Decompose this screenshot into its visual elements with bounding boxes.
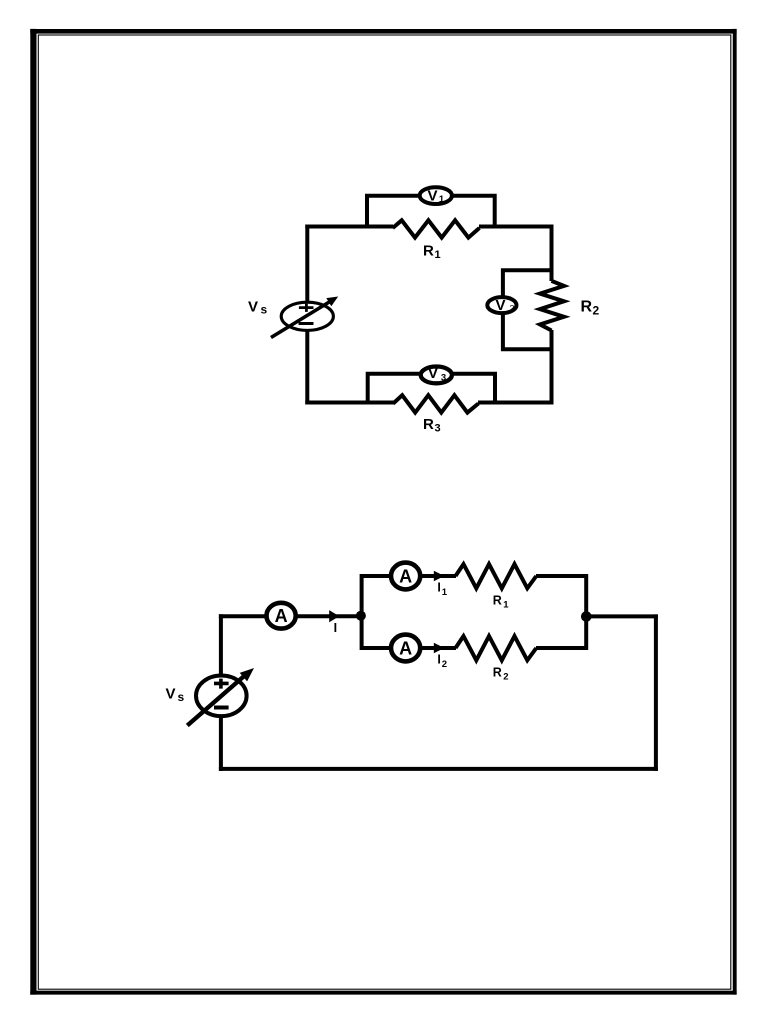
voltmeter V1 xyxy=(420,187,452,205)
wire: lower branch right segment xyxy=(536,646,586,650)
svg-text:R: R xyxy=(581,299,593,316)
resistor R3 (top circuit) xyxy=(393,395,478,412)
svg-text:A: A xyxy=(399,567,412,587)
voltmeter V3 xyxy=(421,365,452,383)
resistor R2 (top circuit) xyxy=(540,281,564,331)
voltmeter V2 xyxy=(487,297,516,314)
svg-text:s: s xyxy=(178,690,185,704)
svg-text:3: 3 xyxy=(441,372,446,383)
wire: voltmeter V1 parallel loop xyxy=(367,196,495,227)
svg-text:R: R xyxy=(493,666,502,680)
current arrow I2 xyxy=(434,643,445,654)
wire: bottom-circuit left vertical lower segment xyxy=(219,716,223,771)
resistor R2 (bottom circuit) xyxy=(456,636,537,660)
label Vs (top circuit) xyxy=(248,299,268,317)
svg-text:V: V xyxy=(248,299,258,316)
resistor R1 (top circuit) xyxy=(393,220,480,237)
current arrow I1 xyxy=(434,571,445,582)
svg-text:R: R xyxy=(493,594,502,608)
wire: right branch vertical xyxy=(584,574,588,650)
voltage source Vs (top circuit) xyxy=(271,297,338,338)
resistor R1 (bottom circuit) xyxy=(456,564,537,588)
label Vs (bottom circuit) xyxy=(166,686,185,705)
svg-text:A: A xyxy=(399,639,412,659)
wire: right side lower segment xyxy=(550,330,554,405)
wire: bottom-circuit left vertical upper segment xyxy=(219,614,223,675)
wire: far right vertical xyxy=(654,614,658,771)
wire: top-circuit left vertical lower segment xyxy=(305,330,309,405)
svg-text:1: 1 xyxy=(435,249,441,261)
junction node (left) xyxy=(356,611,366,621)
wire: bottom side left segment xyxy=(305,401,394,405)
svg-text:1: 1 xyxy=(439,194,445,205)
svg-text:1: 1 xyxy=(503,599,509,610)
svg-text:I: I xyxy=(334,621,337,635)
svg-text:s: s xyxy=(261,302,268,316)
svg-text:V: V xyxy=(427,187,437,204)
label R1 (bottom circuit) xyxy=(493,594,510,611)
label R2 (top circuit) xyxy=(581,299,600,318)
wire: right side upper segment xyxy=(550,225,554,282)
label I1 xyxy=(437,581,447,598)
svg-text:2: 2 xyxy=(510,303,515,313)
svg-text:3: 3 xyxy=(435,423,441,435)
svg-text:V: V xyxy=(428,365,438,382)
wire: upper branch right segment xyxy=(536,574,586,578)
svg-text:2: 2 xyxy=(593,304,600,318)
svg-text:I: I xyxy=(437,581,440,595)
wire: lower branch xyxy=(362,646,456,650)
label I2 xyxy=(437,653,447,670)
label R3 (top circuit) xyxy=(423,416,441,435)
wire: left branch vertical xyxy=(360,574,364,650)
wire: top side right segment xyxy=(479,225,554,229)
svg-text:2: 2 xyxy=(503,671,508,682)
svg-text:R: R xyxy=(423,416,434,433)
wire: top-circuit left vertical upper segment xyxy=(305,225,309,302)
wire: voltmeter V2 parallel loop xyxy=(503,270,552,349)
wire: main horizontal with ammeter xyxy=(219,614,362,618)
wire: bottom return xyxy=(219,767,658,771)
ammeter A2 (lower branch) xyxy=(391,635,420,662)
label R2 (bottom circuit) xyxy=(493,666,509,683)
junction node (right) xyxy=(581,611,592,622)
ammeter A1 (upper branch) xyxy=(391,563,420,590)
current arrow I xyxy=(329,610,339,622)
wire: top side left segment xyxy=(305,225,393,229)
wire: voltmeter V3 parallel loop xyxy=(368,374,495,403)
svg-text:2: 2 xyxy=(442,659,447,670)
wire: bottom side right segment xyxy=(478,401,554,405)
svg-text:I: I xyxy=(437,653,440,667)
svg-text:1: 1 xyxy=(442,587,448,598)
svg-text:A: A xyxy=(275,606,288,626)
wire: upper branch xyxy=(362,574,456,578)
svg-text:V: V xyxy=(166,686,176,703)
label R1 (top circuit) xyxy=(423,243,441,262)
svg-text:R: R xyxy=(423,243,434,260)
ammeter A (main line) xyxy=(267,603,296,629)
voltage source Vs (bottom circuit) xyxy=(187,668,254,726)
svg-text:V: V xyxy=(495,297,505,314)
wire: right horizontal to outer loop xyxy=(586,614,658,618)
